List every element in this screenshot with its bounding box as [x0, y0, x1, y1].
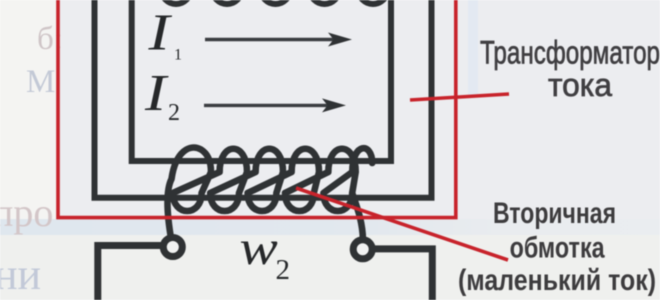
svg-text:I: I [147, 3, 172, 61]
core outer box (magnetic core outer edge) [95, 0, 432, 198]
svg-text:про: про [0, 190, 53, 235]
svg-text:w: w [240, 220, 279, 275]
red highlight frame [58, 0, 456, 218]
red callout line to secondary winding label [296, 188, 508, 260]
wire from left terminal [98, 246, 161, 300]
svg-text:I: I [144, 63, 169, 121]
core inner window box [132, 0, 391, 161]
arrow I1 (current direction) [205, 38, 335, 41]
svg-text:2: 2 [276, 254, 291, 286]
svg-text:тока: тока [548, 67, 612, 103]
svg-text:обмотка: обмотка [510, 232, 605, 265]
arrow I2 (current direction) [204, 104, 330, 107]
svg-text:1: 1 [174, 47, 182, 64]
secondary coil exit wire to right terminal [352, 193, 363, 240]
svg-text:М: М [26, 64, 55, 100]
faint blue strip [468, 0, 478, 95]
left terminal circle [163, 238, 182, 257]
svg-text:Вторичная: Вторичная [493, 197, 616, 230]
right terminal circle [353, 240, 372, 259]
secondary winding coil on bottom core bar [168, 148, 373, 240]
svg-text:Трансформатор: Трансформатор [480, 35, 660, 71]
primary winding top turns (5 bumps) [162, 0, 388, 4]
red callout line to transformer label [410, 94, 509, 100]
svg-text:2: 2 [168, 100, 180, 126]
svg-text:(маленький ток): (маленький ток) [458, 264, 656, 297]
svg-text:ни: ни [0, 250, 41, 299]
wire from right terminal [375, 249, 433, 300]
